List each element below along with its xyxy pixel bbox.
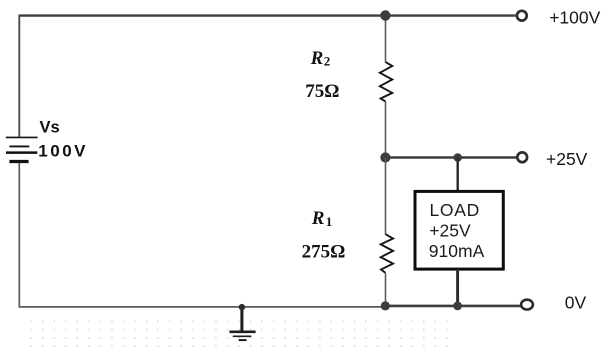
svg-text:+25V: +25V [429,221,471,241]
node junction top rail [380,10,390,20]
terminal 0V [521,300,533,310]
node junction +25V load tap [453,153,462,162]
wire bottom rail thick segment to 0V terminal [385,305,521,308]
wire left vertical lower (battery minus to bottom rail) [18,162,20,307]
node junction bottom rail left [381,301,390,310]
terminal +100V [517,11,527,21]
load U1 box [415,191,503,269]
wire load bottom lead [456,269,459,306]
svg-text:R: R [311,208,325,229]
terminal +25V [517,152,527,162]
wire bottom rail thin segment [19,306,387,308]
svg-text:275Ω: 275Ω [302,241,346,262]
svg-text:0V: 0V [565,292,587,312]
wire left vertical upper (source top) [18,15,20,137]
svg-text:LOAD: LOAD [430,200,480,220]
svg-text:R: R [310,48,324,69]
resistor R1 [381,234,393,273]
wire middle vertical above R2 [385,16,387,63]
svg-text:+25V: +25V [546,149,588,169]
svg-text:1: 1 [326,214,333,229]
wire top horizontal from source to +100V terminal [19,14,515,16]
svg-text:910mA: 910mA [429,241,485,261]
resistor R2 [380,62,393,102]
svg-text:Vs: Vs [40,118,60,136]
battery Vs [6,137,38,161]
svg-text:+100V: +100V [549,7,600,27]
svg-text:2: 2 [324,54,331,69]
svg-text:100V: 100V [38,142,88,161]
node junction +25V left [380,152,390,162]
svg-text:75Ω: 75Ω [305,81,339,102]
grid dots [30,321,447,347]
node ground junction [239,304,245,310]
node junction bottom rail load [453,302,462,311]
wire middle vertical between +25V node and R1 [385,158,387,235]
wire load top lead [457,158,459,192]
wire middle vertical between R2 and +25V node [385,102,387,158]
wire +25V horizontal [385,156,517,158]
ground [229,307,255,340]
wire middle vertical below R1 to bottom rail [385,273,387,307]
